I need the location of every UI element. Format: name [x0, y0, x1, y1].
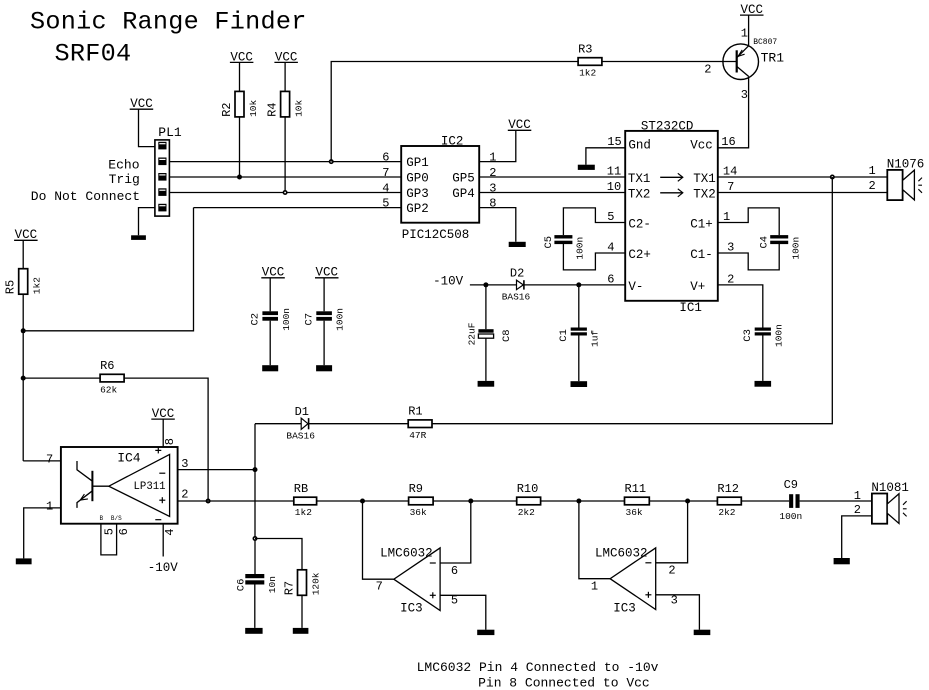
svg-text:TX1: TX1 — [693, 172, 716, 186]
wire D1 to R1 — [309, 423, 408, 425]
junction R4-GP3 — [283, 190, 288, 195]
wire R3 to TR1 base — [602, 61, 737, 63]
svg-text:100n: 100n — [575, 237, 586, 260]
svg-text:7: 7 — [376, 580, 383, 594]
wire VCC to C7 — [323, 278, 325, 312]
wire D1 node vertical — [254, 424, 256, 574]
resistor R5 1k2 — [4, 269, 43, 295]
svg-text:16: 16 — [721, 135, 735, 149]
resistor R7 120k — [283, 570, 322, 596]
wire D1 anode — [255, 423, 301, 425]
svg-text:1uf: 1uf — [589, 330, 600, 347]
svg-text:3: 3 — [727, 240, 734, 254]
resistor R3 1k2 — [578, 42, 602, 78]
svg-text:2k2: 2k2 — [718, 507, 735, 518]
wire ST232 pin5 C2- loop — [563, 208, 625, 235]
power VCC at IC4 pin 8 — [151, 407, 175, 421]
svg-text:C9: C9 — [784, 478, 798, 492]
svg-text:7: 7 — [382, 166, 389, 180]
wire C4 to ST232 pin3 C1- — [718, 244, 779, 270]
wire RB to R9 — [317, 500, 409, 502]
svg-text:8: 8 — [489, 197, 496, 211]
svg-text:GP4: GP4 — [452, 187, 475, 201]
diode D2 BAS16 — [502, 266, 531, 302]
resistor R11 36k — [625, 482, 650, 518]
ground at N1081 — [834, 558, 850, 564]
svg-text:3: 3 — [741, 88, 748, 102]
ground at PL1 pin 5 — [131, 235, 146, 240]
op-amp IC3 second LMC6032 — [591, 546, 678, 615]
svg-text:B/S: B/S — [111, 515, 122, 522]
svg-text:11: 11 — [607, 164, 621, 178]
wire N1081 pin2 to ground — [842, 516, 872, 558]
svg-text:2: 2 — [668, 564, 675, 578]
svg-text:R1: R1 — [408, 405, 422, 419]
junction R2-Trig — [237, 175, 242, 180]
wire R10 to R11 — [541, 500, 625, 502]
svg-text:C1-: C1- — [690, 248, 713, 262]
capacitor C3 100n — [742, 324, 784, 347]
wire IC4 pins 5-6 strap — [101, 524, 117, 555]
capacitor C7 100n — [304, 308, 346, 331]
svg-text:R10: R10 — [517, 482, 539, 496]
svg-text:Vcc: Vcc — [690, 139, 713, 153]
junction C1 tap — [576, 282, 581, 287]
svg-text:R3: R3 — [578, 42, 592, 56]
wire node to R7 — [255, 539, 302, 570]
svg-text:1: 1 — [723, 210, 730, 224]
svg-text:LMC6032: LMC6032 — [380, 547, 433, 561]
svg-text:2k2: 2k2 — [518, 507, 535, 518]
power VCC at C2 — [261, 266, 285, 280]
svg-text:RB: RB — [294, 482, 308, 496]
resistor R10 2k2 — [517, 482, 541, 518]
svg-text:Do Not Connect: Do Not Connect — [31, 189, 140, 204]
capacitor C2 100n — [250, 308, 292, 331]
capacitor C1 1uf — [558, 328, 600, 348]
svg-text:C1+: C1+ — [690, 218, 713, 232]
wire R12 to C9 — [741, 500, 789, 502]
resistor R1 47R — [408, 405, 432, 441]
power VCC at R4 — [274, 50, 298, 64]
svg-text:1: 1 — [591, 580, 598, 594]
junction C8 tap — [483, 282, 488, 287]
svg-text:1: 1 — [854, 489, 861, 503]
svg-text:62k: 62k — [100, 384, 117, 395]
wire IC3a input from RB-R9 node — [363, 501, 394, 579]
wire R9 to R10 — [433, 500, 517, 502]
junction node R5-R6 — [21, 376, 26, 381]
transducer N1081 — [871, 481, 909, 524]
wire C2 to ground — [269, 321, 271, 366]
svg-text:Echo: Echo — [108, 157, 139, 172]
svg-text:ST232CD: ST232CD — [641, 120, 694, 134]
ST232CD port labels — [628, 139, 716, 294]
svg-text:100n: 100n — [791, 237, 802, 260]
svg-text:2: 2 — [869, 179, 876, 193]
svg-text:36k: 36k — [410, 507, 427, 518]
wire GP2 link down — [23, 208, 193, 331]
svg-text:V-: V- — [628, 280, 643, 294]
wire R2 to Trig line — [239, 117, 241, 177]
svg-text:10n: 10n — [267, 576, 278, 593]
arrow TX1 internal — [660, 173, 683, 181]
svg-text:6: 6 — [382, 151, 389, 165]
svg-text:C8: C8 — [501, 329, 513, 342]
svg-text:BC807: BC807 — [753, 38, 777, 47]
svg-text:100n: 100n — [335, 308, 346, 331]
ground at IC3a pin 5 — [477, 630, 494, 635]
IC2 port labels — [406, 156, 475, 216]
wire R4 to GP3 line — [284, 117, 286, 193]
wire PL1 pin 5 to ground — [139, 208, 155, 236]
junction R6-IC4 pin2 — [206, 499, 211, 504]
wire GP4 to ST232 TX2in — [479, 192, 625, 194]
svg-text:R4: R4 — [266, 102, 280, 116]
op-amp IC4 LP311 body — [61, 447, 178, 524]
ground at C3 — [755, 381, 772, 387]
svg-text:LMC6032: LMC6032 — [595, 546, 648, 560]
wire IC3a pin5 to ground — [440, 595, 486, 629]
svg-text:15: 15 — [607, 135, 621, 149]
svg-text:PIC12C508: PIC12C508 — [402, 228, 470, 242]
svg-text:2: 2 — [854, 503, 861, 517]
svg-text:R5: R5 — [4, 280, 18, 294]
wire IC4 pin 3 output — [178, 469, 255, 471]
wire IC4 pin 1 to ground — [24, 508, 61, 559]
ground at IC4 pin 1 — [16, 558, 32, 564]
svg-text:5: 5 — [607, 210, 614, 224]
svg-text:C1: C1 — [558, 329, 570, 342]
svg-text:10k: 10k — [248, 99, 259, 116]
svg-text:1k2: 1k2 — [295, 507, 312, 518]
svg-text:1: 1 — [741, 27, 748, 41]
svg-text:D2: D2 — [510, 266, 524, 280]
wire IC3b pin2 feedback — [656, 501, 688, 563]
svg-text:C2-: C2- — [628, 218, 651, 232]
junction TX1out-R1 tap — [830, 175, 835, 180]
wire ST232 V+ to C3 — [718, 285, 763, 328]
ground at ST232 pin 15 — [578, 165, 595, 170]
IC4 pin numbers — [46, 438, 189, 536]
junction Echo-R3 tap — [329, 159, 334, 164]
svg-text:GP1: GP1 — [406, 156, 429, 170]
resistor R2 10k — [220, 91, 259, 117]
svg-text:3: 3 — [181, 457, 188, 471]
svg-text:7: 7 — [46, 452, 53, 466]
wire C9 to N1081 — [800, 500, 872, 502]
svg-text:GP5: GP5 — [452, 171, 475, 185]
wire IC2 pin1 to VCC — [479, 130, 516, 161]
svg-text:C6: C6 — [236, 579, 248, 592]
diode D1 BAS16 — [286, 405, 315, 441]
connector PL1 — [155, 125, 182, 216]
capacitor C4 100n — [759, 235, 802, 260]
op-amp IC3 first LMC6032 — [376, 547, 459, 616]
comparator internals IC4 — [77, 447, 170, 522]
svg-text:1: 1 — [489, 151, 496, 165]
svg-text:10: 10 — [607, 180, 621, 194]
svg-text:-10V: -10V — [148, 561, 179, 575]
svg-text:6: 6 — [117, 528, 131, 535]
resistor R6 62k — [100, 359, 124, 395]
svg-text:36k: 36k — [626, 507, 643, 518]
capacitor C8 22uF polarized — [467, 322, 513, 345]
svg-text:BAS16: BAS16 — [286, 430, 315, 441]
wire C5 to ST232 pin4 C2+ — [563, 244, 625, 270]
wire TR1 collector to ST232 Vcc pin 16 — [718, 76, 749, 147]
svg-text:100n: 100n — [773, 324, 784, 347]
wire GP2 net — [194, 207, 402, 209]
svg-text:1: 1 — [46, 500, 53, 514]
svg-text:4: 4 — [607, 240, 614, 254]
svg-text:120k: 120k — [310, 572, 321, 595]
ground at IC2 pin 8 — [509, 242, 526, 247]
wire R5 down the left rail — [22, 294, 24, 461]
wire IC3b input from R10-R11 node — [579, 501, 610, 579]
svg-text:R7: R7 — [283, 581, 297, 595]
wire R6 left — [23, 377, 100, 379]
wire VCC to R2 — [239, 62, 241, 91]
svg-text:100n: 100n — [281, 308, 292, 331]
svg-text:V+: V+ — [690, 280, 705, 294]
svg-text:4: 4 — [382, 182, 389, 196]
ground at C6 — [245, 628, 262, 634]
resistor RB 1k2 — [294, 482, 317, 518]
ground at C7 — [316, 365, 332, 371]
op-amp IC2 PIC12C508 body — [401, 146, 479, 223]
svg-text:TX1: TX1 — [628, 172, 651, 186]
svg-text:5: 5 — [382, 197, 389, 211]
svg-text:22uF: 22uF — [467, 322, 478, 345]
wire DNC net PL1-4 to GP3 — [169, 192, 401, 194]
power VCC at R5 — [14, 228, 37, 242]
capacitor C9 100n — [779, 478, 802, 522]
wire IC4 pin 4 to -10V — [162, 524, 164, 557]
svg-text:TX2: TX2 — [693, 187, 716, 201]
IC2 pin numbers — [382, 151, 496, 211]
wire C6 to ground — [254, 584, 256, 628]
wire Echo tap up and right to R3 — [331, 62, 578, 162]
svg-text:C3: C3 — [742, 329, 754, 342]
svg-text:C4: C4 — [759, 236, 771, 249]
wire VCC to IC4 pin 8 — [162, 419, 164, 447]
svg-text:Trig: Trig — [109, 172, 140, 187]
svg-text:B: B — [100, 515, 104, 522]
wire C7 to ground — [323, 321, 325, 366]
capacitor C6 10n — [236, 574, 278, 593]
wire down to C1 — [578, 285, 580, 328]
wire C3 to ground — [762, 335, 764, 381]
svg-text:PL1: PL1 — [158, 125, 182, 140]
svg-text:C2+: C2+ — [628, 248, 651, 262]
junction C6-R7 node — [253, 536, 258, 541]
transistor TR1 BC807 — [704, 27, 784, 102]
wire TX1out to N1076 pin1 — [718, 176, 888, 178]
svg-text:LP311: LP311 — [134, 481, 166, 493]
svg-text:8: 8 — [163, 438, 177, 445]
svg-text:R2: R2 — [220, 102, 234, 116]
ST232CD pin numbers — [607, 135, 738, 286]
svg-text:2: 2 — [704, 63, 711, 77]
wire VCC to R4 — [284, 62, 286, 91]
svg-text:D1: D1 — [295, 405, 309, 419]
wire Echo net PL1-2 to GP1 — [169, 161, 401, 163]
wire TX2out to N1076 pin2 — [718, 192, 888, 194]
wire left rail to IC4 pin 7 — [23, 460, 77, 462]
svg-text:C5: C5 — [543, 236, 555, 249]
power VCC at R2 — [230, 50, 254, 64]
svg-text:IC3: IC3 — [400, 602, 423, 616]
svg-text:1: 1 — [869, 164, 876, 178]
capacitor C5 100n — [543, 235, 586, 260]
svg-text:2: 2 — [727, 272, 734, 286]
op-amp IC1 ST232CD body — [625, 131, 718, 301]
svg-text:14: 14 — [723, 164, 737, 178]
wire Trig net PL1-3 to GP0 — [169, 176, 401, 178]
svg-text:C7: C7 — [304, 313, 316, 326]
svg-text:R12: R12 — [717, 482, 739, 496]
resistor R4 10k — [266, 91, 305, 117]
svg-text:6: 6 — [607, 272, 614, 286]
svg-text:1k2: 1k2 — [32, 277, 43, 294]
wire VCC to R5 — [22, 240, 24, 268]
junction R11-R12 node — [685, 499, 690, 504]
power VCC at TR1 — [740, 3, 764, 17]
svg-text:SRF04: SRF04 — [55, 39, 132, 68]
wire IC3b pin3 to ground — [656, 595, 700, 630]
svg-text:Sonic Range Finder: Sonic Range Finder — [30, 7, 307, 36]
svg-text:LMC6032 Pin 4 Connected to -10: LMC6032 Pin 4 Connected to -10v — [417, 660, 659, 675]
svg-text:2: 2 — [489, 166, 496, 180]
svg-text:R6: R6 — [100, 359, 114, 373]
svg-text:47R: 47R — [409, 430, 426, 441]
svg-text:7: 7 — [727, 180, 734, 194]
wire R6 right to IC4 pin2 node — [124, 378, 208, 501]
wire TX1out tap down to R1 — [432, 177, 832, 424]
arrow TX2 internal — [660, 189, 683, 197]
svg-text:Pin 8 Connected to Vcc: Pin 8 Connected to Vcc — [478, 676, 650, 690]
svg-text:IC3: IC3 — [613, 602, 636, 616]
ground at C1 — [571, 381, 588, 387]
svg-text:R11: R11 — [625, 482, 647, 496]
wire -10V to ST232 V- — [470, 284, 625, 286]
svg-text:6: 6 — [451, 564, 458, 578]
wire VCC to C2 — [269, 278, 271, 312]
svg-text:GP3: GP3 — [406, 187, 429, 201]
svg-text:5: 5 — [103, 528, 117, 535]
svg-text:R9: R9 — [409, 482, 423, 496]
wire C1 to ground — [578, 335, 580, 381]
svg-text:1k2: 1k2 — [579, 68, 596, 79]
resistor R9 36k — [409, 482, 434, 518]
svg-text:3: 3 — [671, 594, 678, 608]
wire down to C8 — [485, 285, 487, 329]
svg-text:4: 4 — [163, 528, 177, 535]
svg-text:IC1: IC1 — [679, 301, 702, 315]
ground at IC3b pin 3 — [694, 630, 711, 635]
junction R9-R10 node — [468, 499, 473, 504]
wire GP5 to ST232 TX1in — [479, 176, 625, 178]
ground at R7 — [293, 628, 309, 634]
resistor R12 2k2 — [717, 482, 741, 518]
svg-text:TX2: TX2 — [628, 187, 651, 201]
svg-text:GP0: GP0 — [406, 171, 429, 185]
wire IC3a pin6 feedback — [440, 501, 471, 563]
transducer N1076 — [887, 157, 925, 200]
svg-text:3: 3 — [489, 182, 496, 196]
wire R7 to ground — [301, 595, 303, 628]
power VCC at PL1 — [130, 97, 154, 111]
ground at C2 — [262, 365, 278, 371]
wire IC4 pin 2 input — [178, 500, 294, 502]
svg-text:N1081: N1081 — [871, 481, 909, 495]
power VCC at C7 — [315, 266, 339, 280]
wire ST232 pin15 Gnd to ground — [586, 148, 625, 165]
wire R11 to R12 — [649, 500, 717, 502]
wire VCC to TR1 emitter — [748, 15, 750, 46]
svg-text:-10V: -10V — [433, 275, 464, 289]
junction IC4 pin3-D1 node — [253, 467, 258, 472]
junction R10-R11 IC3b in — [576, 499, 581, 504]
wire VCC to PL1 pin 1 — [139, 109, 155, 146]
svg-text:C2: C2 — [250, 313, 262, 326]
power VCC at IC2 pin 1 — [508, 118, 532, 132]
svg-text:100n: 100n — [779, 511, 802, 522]
svg-text:TR1: TR1 — [761, 50, 785, 65]
svg-text:IC4: IC4 — [117, 451, 141, 466]
junction node R5-GP2 — [21, 328, 26, 333]
svg-text:Gnd: Gnd — [628, 139, 651, 153]
wire C8 to ground — [485, 338, 487, 381]
wire IC2 pin8 to ground — [479, 208, 516, 242]
svg-text:10k: 10k — [293, 99, 304, 116]
svg-text:BAS16: BAS16 — [502, 292, 531, 303]
wire ST232 pin1 C1+ loop — [718, 208, 779, 235]
svg-text:IC2: IC2 — [441, 135, 464, 149]
svg-text:2: 2 — [181, 488, 188, 502]
svg-text:N1076: N1076 — [887, 157, 925, 171]
ground at C8 — [478, 381, 495, 387]
svg-text:GP2: GP2 — [406, 202, 429, 216]
junction RB-R9 IC3a in — [360, 499, 365, 504]
